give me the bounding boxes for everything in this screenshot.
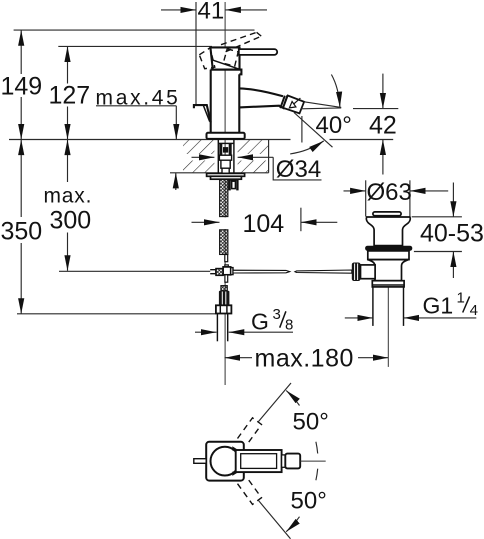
shank tube in hole — [217, 140, 219, 174]
svg-text:50°: 50° — [291, 487, 327, 514]
svg-text:350: 350 — [1, 218, 43, 246]
drain valve centerline — [387, 276, 389, 367]
spout projection wedge lines — [304, 102, 341, 108]
pop-up rod upper tube — [225, 255, 228, 262]
base plate — [207, 133, 245, 139]
top view: body circle — [211, 447, 240, 476]
svg-text:G1: G1 — [423, 293, 454, 319]
top view: dashed lever raised up — [238, 418, 262, 445]
dimension Ø34 hole arrows and leader — [192, 156, 215, 158]
valve union nut — [372, 281, 404, 287]
dimension 41 — [161, 9, 196, 11]
top view: lever knob — [285, 454, 300, 469]
dimension 42 — [382, 74, 384, 109]
top view: lower 50-degree leg — [259, 501, 291, 539]
svg-text:149: 149 — [1, 73, 43, 101]
40-degree lower arc arrow — [290, 141, 324, 154]
shank mounting bracket — [218, 142, 234, 144]
rod knurled knob — [352, 263, 361, 282]
valve body lower — [368, 260, 409, 281]
top view: lever junction marks — [232, 446, 239, 450]
countertop surface line — [9, 139, 291, 141]
back ledge (pop-up knob) — [194, 105, 211, 122]
ref line top of handle (127 datum) — [58, 45, 212, 47]
white gap in hose at 104 dimension — [222, 217, 229, 229]
dimension Ø63 — [344, 190, 366, 192]
top view: centerline — [300, 460, 326, 462]
shank nut stack — [219, 155, 231, 160]
valve tailpipe G1 1/4 — [372, 287, 374, 326]
dimension 40-53 — [452, 183, 454, 217]
top view: arc upper with arrow — [286, 391, 299, 406]
top view: upper 50-degree leg — [259, 383, 292, 422]
aerator flow arrow — [294, 98, 301, 104]
svg-text:40-53: 40-53 — [420, 220, 484, 248]
dashed handle raised: lever lines — [199, 32, 261, 68]
supply knurled block — [219, 291, 230, 306]
supply nut — [216, 305, 232, 313]
svg-text:max.180: max.180 — [255, 345, 354, 373]
dimension 104 — [192, 221, 220, 223]
supply connector crosshatch block — [221, 286, 227, 291]
svg-text:127: 127 — [49, 82, 91, 110]
extension from aerator corner down — [301, 116, 303, 143]
dimension max.180 — [225, 357, 252, 359]
pop-up rod socket — [228, 179, 230, 190]
svg-text:50°: 50° — [293, 409, 329, 436]
svg-text:1: 1 — [457, 290, 465, 307]
dimension G1 1/4 arrows — [345, 317, 373, 319]
spout joint band — [280, 96, 285, 109]
svg-text:300: 300 — [50, 207, 92, 235]
rod knob stem — [361, 265, 376, 279]
handle base inner diagonal — [211, 60, 239, 70]
40-degree diagonal leg — [294, 113, 333, 148]
valve body upper — [368, 251, 409, 260]
svg-text:40°: 40° — [316, 112, 352, 139]
dimension 149 — [20, 30, 22, 74]
svg-text:8: 8 — [285, 317, 293, 334]
svg-text:4: 4 — [470, 302, 478, 319]
faucet lever (horizontal) — [239, 49, 277, 55]
40-degree upper arc arrow — [331, 75, 340, 108]
ref line 350 bottom (supply connection level) — [17, 313, 216, 315]
svg-text:Ø63: Ø63 — [367, 179, 412, 206]
horizontal pop-up rod segment 1 — [233, 270, 290, 273]
valve lift knob — [373, 212, 401, 216]
dimension 350 — [20, 140, 22, 218]
dashed handle raised: base left quad — [199, 48, 215, 69]
pop-up cross fitting — [225, 265, 229, 267]
ref line max.300 bottom / pop-up rod left line — [59, 270, 210, 272]
supply pipe G3/8 — [216, 314, 218, 342]
dashed handle raised: end cap — [257, 32, 262, 36]
flexible supply hose upper — [220, 179, 228, 216]
countertop bottom line — [170, 172, 269, 174]
faucet handle base — [210, 47, 239, 69]
dimension max.300 — [67, 140, 69, 183]
top view: body — [206, 442, 244, 481]
faucet cartridge collar — [239, 70, 241, 75]
spout bottom contour — [239, 106, 284, 109]
valve gasket ring — [365, 246, 412, 251]
spout top contour — [239, 88, 283, 96]
dimension 127 — [67, 46, 69, 83]
dimension 40-53 extension lines — [412, 216, 462, 218]
svg-text:41: 41 — [198, 0, 225, 24]
svg-text:3: 3 — [273, 306, 281, 323]
extension line 41 left (to back ledge) — [195, 2, 197, 105]
faucet centerline — [224, 2, 226, 385]
aerator (tilted) — [283, 96, 304, 114]
svg-text:Ø34: Ø34 — [276, 156, 321, 183]
horizontal pop-up rod segment 2 (after break) — [295, 270, 352, 273]
top view: lever — [236, 450, 282, 472]
svg-text:max.: max. — [44, 185, 93, 208]
svg-text:104: 104 — [243, 210, 285, 238]
valve bell top — [366, 217, 410, 246]
washer under counter — [207, 173, 245, 176]
top view: lever inner detail — [241, 454, 277, 469]
top view: back tab — [194, 459, 206, 464]
dimension Ø63 extension lines — [365, 180, 367, 216]
top view: lever neck — [282, 455, 286, 467]
dimension G3/8 arrows — [195, 331, 217, 333]
svg-text:G: G — [251, 309, 269, 335]
ref line top of raised handle (149 datum) — [14, 29, 255, 31]
faucet body — [210, 70, 212, 133]
top view: arc lower with arrow — [286, 517, 299, 532]
top view: dashed lever swung down — [238, 477, 262, 504]
dashed handle raised: base tilted square — [223, 49, 238, 66]
countertop right edge — [268, 140, 270, 173]
countertop hatch — [183, 140, 214, 155]
svg-text:42: 42 — [369, 112, 397, 140]
flexible supply hose lower — [220, 230, 228, 255]
top view: arc middle fragment — [316, 442, 318, 454]
